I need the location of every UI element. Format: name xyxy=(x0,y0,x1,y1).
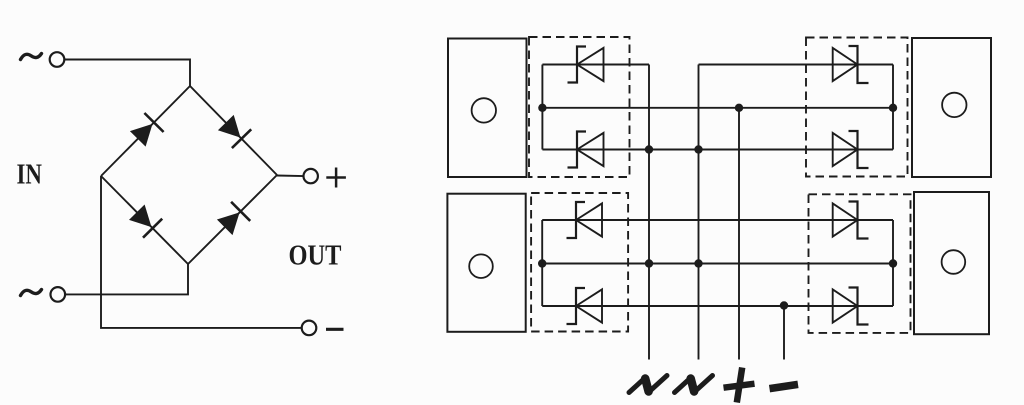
junction dot: AC drop 1 / bottom center node xyxy=(645,259,653,267)
wire: left node to minus terminal xyxy=(101,176,302,328)
minus sign xyxy=(326,328,344,331)
AC terminal symbol 1 (~) xyxy=(629,376,667,393)
wire: M4 cathode bus xyxy=(892,220,894,306)
diode D7 (module M2 top, schottky) xyxy=(833,46,869,83)
mounting hole TB4 xyxy=(942,250,966,274)
wire: AC drop 2 xyxy=(698,65,700,360)
module M3 outline (dashed, bottom left) xyxy=(531,193,628,332)
AC input terminal 2 tilde xyxy=(21,290,42,296)
wire: bottom row lower anode link xyxy=(542,305,893,307)
wire: bridge top-right edge xyxy=(190,86,277,175)
diode D2 (top node to plus node) xyxy=(218,115,251,148)
AC input terminal 1 circle xyxy=(50,52,65,67)
wire: bottom row center node xyxy=(542,263,893,265)
mounting hole TB2 xyxy=(942,93,966,117)
junction dot: M4 bus / bottom center node xyxy=(889,259,897,267)
wire: bridge bottom-left edge xyxy=(101,176,188,264)
junction dot: M1 bus / plus bus xyxy=(538,104,546,112)
junction dot: AC drop 1 / top anode link xyxy=(645,145,653,153)
plus output terminal circle xyxy=(304,169,318,183)
wire: M1 top diode row xyxy=(542,64,649,66)
wire: AC1 terminal to bridge top node xyxy=(64,60,190,87)
diode D10 (module M3 bottom, schottky) xyxy=(567,288,603,324)
junction dot: M2 bus / plus bus xyxy=(889,104,897,112)
plus sign xyxy=(326,168,346,188)
mounting hole TB1 xyxy=(472,98,496,122)
wire: AC2 terminal to bridge bottom node xyxy=(65,264,188,294)
terminal block TB4 (bottom right) xyxy=(914,192,989,334)
junction dot: AC drop 2 / bottom center node xyxy=(694,259,702,267)
diode D6 (module M1 bottom, schottky) xyxy=(568,132,604,168)
wire: M1 cathode bus xyxy=(541,65,543,150)
wire: top row center node (plus bus) xyxy=(542,107,893,109)
svg-text:IN: IN xyxy=(17,159,43,190)
diode D9 (module M3 top, schottky) xyxy=(567,202,603,238)
terminal block TB2 (top right) xyxy=(912,38,991,177)
diode D5 (module M1 top, schottky) xyxy=(568,47,604,83)
module M2 outline (dashed, top right) xyxy=(806,38,908,177)
terminal block TB1 (top left) xyxy=(448,39,527,178)
wire: AC drop 1 xyxy=(648,65,650,360)
wire: plus drop xyxy=(738,108,740,360)
minus terminal symbol xyxy=(770,384,799,388)
module M4 outline (dashed, bottom right) xyxy=(809,194,911,333)
svg-text:OUT: OUT xyxy=(289,240,342,271)
plus terminal symbol xyxy=(724,368,755,403)
module M1 outline (dashed, top left) xyxy=(529,37,630,177)
wire: plus node to plus terminal xyxy=(277,175,304,178)
diode D12 (module M4 bottom, schottky) xyxy=(833,288,869,325)
junction dot: AC drop 2 / top anode link xyxy=(694,145,702,153)
junction dot: minus drop / lower anode link xyxy=(780,301,788,309)
mounting hole TB3 xyxy=(469,254,493,278)
terminal block TB3 (bottom left) xyxy=(447,194,525,332)
diode D1 (left node to top node) xyxy=(130,113,164,147)
AC terminal symbol 2 (~) xyxy=(675,376,713,393)
diode D3 (left node to bottom node) xyxy=(129,205,162,238)
wire: top row anode link xyxy=(542,149,893,151)
diode D4 (bottom node to plus node) xyxy=(217,202,250,235)
wire: M2 top diode row xyxy=(699,64,894,66)
junction dot: M3 bus / bottom center node xyxy=(538,259,546,267)
AC input terminal 2 circle xyxy=(51,287,66,302)
diode D8 (module M2 bottom, schottky) xyxy=(833,131,869,168)
wire: M3 cathode bus xyxy=(541,220,543,306)
wire: minus drop xyxy=(783,306,785,360)
wire: bridge top-left edge xyxy=(101,86,190,176)
wire: bottom row top anode link xyxy=(542,219,893,221)
wire: M2 cathode bus xyxy=(892,65,894,150)
junction dot: plus drop / plus bus xyxy=(735,104,743,112)
minus output terminal circle xyxy=(302,321,317,336)
AC input terminal 1 tilde xyxy=(21,54,42,60)
diode D11 (module M4 top, schottky) xyxy=(833,202,869,239)
wire: bridge bottom-right edge xyxy=(188,175,277,264)
